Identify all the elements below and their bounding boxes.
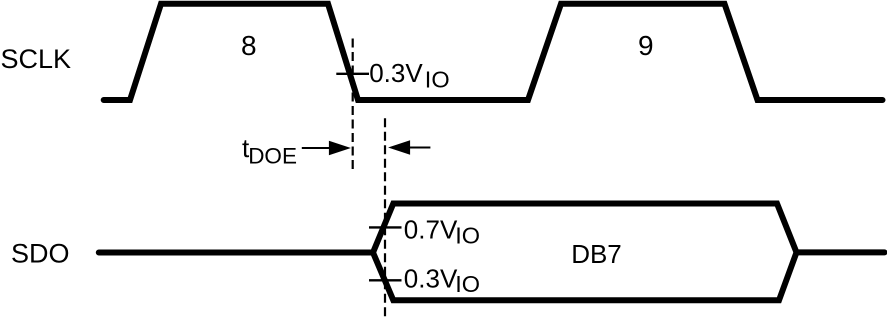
SDO waveform lower branch bbox=[373, 252, 797, 300]
tDOE left arrowhead bbox=[388, 140, 410, 154]
svg-text:DOE: DOE bbox=[248, 144, 297, 169]
0.3VIO tick on SCLK falling edge bbox=[336, 73, 369, 75]
svg-text:8: 8 bbox=[241, 30, 257, 61]
svg-text:IO: IO bbox=[425, 67, 450, 93]
svg-text:IO: IO bbox=[455, 223, 480, 249]
0.7VIO tick on SDO bbox=[369, 226, 402, 228]
SCLK waveform bbox=[104, 4, 883, 100]
SDO waveform upper branch bbox=[99, 204, 885, 253]
svg-text:0.7V: 0.7V bbox=[404, 215, 458, 245]
svg-text:IO: IO bbox=[455, 271, 480, 297]
svg-text:9: 9 bbox=[638, 30, 654, 61]
dashed line at SDO transition bbox=[384, 118, 386, 318]
tDOE left arrow line bbox=[408, 147, 430, 149]
dashed line at SCLK 0.3VIO crossing bbox=[352, 39, 354, 172]
svg-text:SCLK: SCLK bbox=[1, 44, 72, 74]
svg-text:DB7: DB7 bbox=[571, 239, 622, 269]
svg-text:SDO: SDO bbox=[11, 238, 70, 268]
tDOE right arrow line bbox=[302, 147, 330, 149]
tDOE right arrowhead bbox=[329, 141, 351, 155]
0.3VIO tick on SDO bbox=[369, 279, 402, 281]
svg-text:0.3V: 0.3V bbox=[369, 58, 423, 88]
svg-text:0.3V: 0.3V bbox=[404, 264, 458, 294]
